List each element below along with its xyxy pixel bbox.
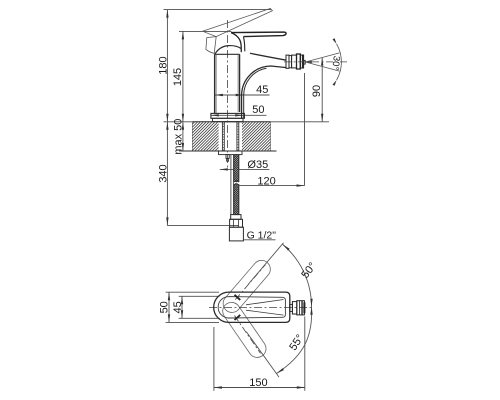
svg-text:145: 145: [172, 68, 184, 86]
svg-text:45: 45: [172, 301, 184, 313]
svg-text:Ø35: Ø35: [247, 159, 268, 171]
svg-text:50: 50: [252, 104, 264, 116]
svg-text:max 50: max 50: [172, 119, 184, 155]
svg-text:180: 180: [158, 56, 170, 74]
svg-text:150: 150: [249, 377, 267, 389]
svg-text:30°: 30°: [329, 55, 342, 71]
svg-text:120: 120: [257, 175, 275, 187]
svg-text:50: 50: [159, 301, 171, 313]
svg-text:340: 340: [157, 164, 169, 182]
svg-text:45: 45: [256, 84, 268, 96]
svg-text:90: 90: [311, 85, 323, 97]
